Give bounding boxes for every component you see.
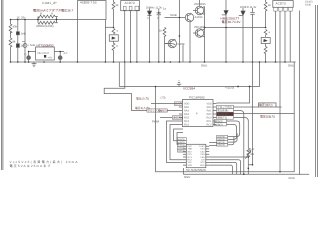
capacitor C3	[27, 52, 31, 63]
svg-text:4 C: 4 C	[64, 52, 68, 55]
transistor Q3 2SC1815	[193, 29, 204, 37]
svg-text:GND: GND	[289, 176, 295, 180]
ic2 pins right	[206, 146, 209, 165]
mcu pin names right	[206, 103, 212, 127]
mcu pin names left	[184, 103, 190, 127]
node dots right	[204, 27, 286, 63]
pin label box right r4	[217, 116, 234, 119]
nested loop 1	[166, 121, 183, 162]
node dots vcc	[155, 61, 261, 87]
wire base row	[165, 17, 186, 19]
wire out5	[227, 121, 240, 137]
pin label box right r2	[217, 109, 234, 112]
capacitor C1 1uF	[16, 44, 19, 48]
svg-text:2SC1815: 2SC1815	[194, 25, 206, 29]
nested loop 4	[177, 133, 183, 145]
rheostat VR1	[245, 146, 251, 175]
resistor R4	[112, 29, 115, 34]
wire top rail	[11, 19, 78, 21]
svg-text:VDD: VDD	[200, 164, 205, 167]
svg-text:+ 5uB: + 5uB	[28, 43, 36, 47]
svg-text:+5V: +5V	[48, 57, 53, 60]
wire CN2 pin4	[289, 11, 291, 62]
resistor R1 43k	[9, 20, 12, 35]
svg-text:+5(220): +5(220)	[225, 85, 235, 89]
svg-text:GND: GND	[184, 175, 190, 179]
nested loop 2	[170, 125, 183, 160]
resistor R8	[264, 30, 267, 37]
svg-text:1AB: 1AB	[21, 32, 26, 36]
ic2 pin label boxes right	[217, 135, 228, 146]
svg-text:VSS: VSS	[188, 164, 193, 167]
wire box3 riser	[228, 133, 238, 142]
svg-text:C04b: C04b	[305, 3, 312, 6]
resistor network RN1	[38, 15, 58, 24]
svg-text:通信(RX): 通信(RX)	[173, 116, 183, 120]
ic2 pins left	[183, 146, 186, 165]
wire out1	[234, 106, 259, 108]
wire CN1 pin1	[124, 11, 126, 62]
wire branch3	[24, 20, 26, 63]
svg-text:TR#B: TR#B	[170, 13, 177, 17]
wire out6	[227, 124, 237, 139]
net flag 電圧2(入力)	[167, 110, 179, 112]
svg-text:HT7550M93: HT7550M93	[37, 44, 54, 48]
resistor R7 1k	[264, 0, 267, 28]
pin label box right r5	[215, 119, 227, 122]
svg-text:LM: LM	[263, 40, 267, 43]
svg-text:C40B: C40B	[178, 42, 185, 46]
pin label box pwm	[172, 116, 182, 119]
mcu right box labels	[215, 105, 233, 126]
mcu pins right	[213, 104, 217, 125]
wire vcc to mcu	[217, 87, 250, 104]
transistor Q2 2SC1815	[193, 0, 204, 15]
resistor R2 9k	[9, 38, 12, 62]
svg-text:VIN VOUT: VIN VOUT	[37, 52, 50, 55]
wire CN2 pin1	[275, 11, 277, 62]
wire stub	[105, 26, 113, 28]
svg-text:x2B(3): x2B(3)	[178, 141, 185, 144]
svg-text:x1A(7): x1A(7)	[175, 103, 183, 106]
capacitor C4	[58, 52, 62, 63]
svg-text:1F, 20x: 1F, 20x	[17, 16, 27, 20]
resistor R9	[264, 44, 267, 63]
svg-text:10MHz 11.3v: 10MHz 11.3v	[240, 5, 257, 9]
net flag 電圧(出力)	[259, 103, 282, 107]
wire Q1 emitter drop	[165, 22, 191, 62]
svg-text:x3B(73): x3B(73)	[217, 141, 225, 144]
wire CN2 pin2	[279, 11, 281, 62]
wire CN1 pin3	[136, 11, 138, 62]
svg-text:C: C	[157, 17, 159, 20]
ground GND1	[32, 62, 37, 67]
diode D2	[16, 32, 19, 35]
wire PWM row	[160, 117, 172, 119]
svg-text:電圧2(出力): 電圧2(出力)	[260, 114, 275, 118]
resistor R5	[112, 41, 115, 62]
wire out3	[234, 113, 295, 115]
net flag 電圧(入力)	[151, 103, 179, 105]
zener diode ZD1	[222, 0, 228, 62]
svg-text:1a: 1a	[163, 7, 167, 11]
diode D4	[147, 9, 151, 63]
mcu U1 PIC16F683	[182, 100, 213, 127]
svg-text:ACD7U: ACD7U	[276, 1, 287, 5]
svg-text:GND: GND	[201, 64, 207, 68]
svg-text:RC2: RC2	[188, 159, 193, 162]
diode D5	[239, 8, 245, 62]
svg-text:4B: 4B	[251, 152, 255, 156]
node dots power	[10, 19, 79, 63]
wire CN2 pin3	[284, 11, 286, 62]
pin label box right r6	[215, 123, 227, 126]
capacitor C2	[22, 42, 27, 48]
transistor Q4 C1815	[165, 39, 177, 47]
svg-text:PIC16F683: PIC16F683	[189, 96, 205, 100]
ground GND2	[177, 81, 181, 87]
svg-text:4SB05-7.5S: 4SB05-7.5S	[80, 1, 97, 5]
svg-text:LR: LR	[251, 147, 255, 151]
wire mid row	[205, 27, 266, 29]
border right	[316, 5, 318, 177]
connector CN2	[273, 1, 293, 12]
svg-text:x3B(3): x3B(3)	[178, 144, 185, 147]
svg-text:1uF: 1uF	[21, 44, 26, 48]
pin label box x1B	[159, 109, 167, 112]
pin label box right r1	[217, 105, 234, 108]
svg-text:CLK2: CLK2	[199, 145, 205, 148]
wire TR rail	[178, 0, 180, 62]
svg-text:C: C	[147, 17, 149, 20]
svg-text:GND: GND	[288, 64, 294, 68]
resistor R3 chain	[112, 0, 115, 26]
capacitor C6	[250, 8, 254, 62]
wire vcc rail y86	[119, 62, 259, 87]
svg-text:電圧監視1: 電圧監視1	[217, 109, 229, 113]
svg-text:通信(TX): 通信(TX)	[217, 116, 227, 120]
ic2 U3	[186, 144, 206, 167]
wire right drop	[104, 20, 106, 63]
border left	[2, 0, 3, 170]
svg-text:ILH: ILH	[201, 159, 205, 162]
svg-text:PWM: PWM	[152, 120, 160, 124]
svg-text:x1B(7): x1B(7)	[160, 110, 167, 113]
svg-text:SC-SH62SSMH: SC-SH62SSMH	[186, 168, 206, 172]
wire collector rail	[202, 7, 205, 63]
wire out4	[234, 118, 249, 146]
svg-text:CLK: CLK	[188, 145, 193, 148]
transformer module T1	[78, 1, 107, 20]
wire mcu left boundary	[156, 62, 295, 172]
svg-text:F: F	[196, 112, 198, 116]
wire drop x280	[279, 62, 281, 172]
pin label box x1A	[174, 102, 182, 105]
wire vcc drop2	[104, 62, 147, 111]
ic2 right wires	[209, 142, 248, 174]
svg-text:2SC1815: 2SC1815	[194, 2, 206, 6]
wire branch2	[17, 20, 19, 63]
svg-text:電圧36.7V-3V: 電圧36.7V-3V	[222, 20, 242, 24]
ic2 pin names right	[199, 145, 205, 167]
ic2 pin label boxes left	[178, 138, 187, 152]
svg-text:クロック出力: クロック出力	[217, 105, 233, 109]
svg-text:R: R	[40, 12, 42, 16]
svg-text:電圧5VAは25mAまで: 電圧5VAは25mAまで	[10, 164, 51, 168]
wire right drop	[299, 11, 301, 175]
ic2 pin names left	[188, 145, 193, 167]
connector CN1	[121, 1, 140, 11]
wire CN1 pin2	[130, 11, 132, 62]
svg-text:x4B(3): x4B(3)	[178, 147, 185, 150]
svg-text:x1B(73): x1B(73)	[217, 136, 225, 139]
diode box D6	[261, 38, 270, 44]
ic2 left box labels	[178, 138, 185, 153]
bottom rail A	[183, 173, 309, 175]
transistor Q1 A1015	[185, 13, 193, 21]
svg-text:LM: LM	[111, 38, 115, 41]
resistor R6	[163, 28, 166, 63]
svg-text:x4B(73): x4B(73)	[217, 144, 225, 147]
svg-text:ACD7U: ACD7U	[125, 1, 136, 5]
wire box4 riser	[228, 136, 234, 145]
wire left drop	[77, 20, 79, 63]
capacitor C5	[157, 9, 161, 63]
svg-text:TRB: TRB	[188, 148, 193, 151]
svg-text:(73): (73)	[161, 96, 166, 100]
mcu pins left	[179, 104, 183, 125]
wire cap line down	[248, 62, 252, 165]
node dots mid	[105, 12, 160, 63]
svg-text:電圧(出力): 電圧(出力)	[259, 103, 273, 107]
diode box D3	[109, 35, 118, 41]
node dots TR	[164, 17, 206, 63]
svg-text:VCC5B4: VCC5B4	[183, 87, 195, 91]
bottom rail stub	[182, 168, 184, 174]
svg-text:43562(1234): 43562(1234)	[36, 24, 54, 28]
svg-text:x5B(3): x5B(3)	[178, 150, 185, 153]
wire mid left	[10, 32, 12, 39]
svg-text:x1B(3): x1B(3)	[178, 138, 185, 141]
nested loop 3	[174, 129, 183, 141]
svg-text:R: R	[51, 12, 53, 16]
node dots bottom	[243, 156, 281, 175]
wire vcc drop1	[118, 62, 120, 87]
svg-text:x2B(3): x2B(3)	[215, 123, 223, 126]
wire AC bus y62	[11, 61, 296, 63]
regulator U2	[29, 47, 64, 60]
pin label box clock-in	[147, 109, 159, 112]
wire out2	[234, 111, 244, 175]
pin label box right r3	[217, 112, 234, 115]
svg-text:電圧監視2: 電圧監視2	[217, 112, 229, 116]
svg-text:x2B(73): x2B(73)	[217, 138, 225, 141]
svg-text:C1041_2P: C1041_2P	[42, 1, 57, 5]
svg-text:RC3: RC3	[184, 124, 190, 127]
svg-text:10MHz 11.3v: 10MHz 11.3v	[146, 5, 163, 9]
svg-text:RC2: RC2	[206, 124, 212, 127]
svg-text:43k: 43k	[13, 25, 18, 29]
svg-text:A1015: A1015	[195, 15, 204, 19]
svg-text:電圧(入力): 電圧(入力)	[136, 97, 149, 101]
svg-text:1): 1)	[24, 53, 26, 56]
ic2 right box labels	[217, 136, 225, 147]
svg-text:RC1: RC1	[188, 156, 193, 159]
